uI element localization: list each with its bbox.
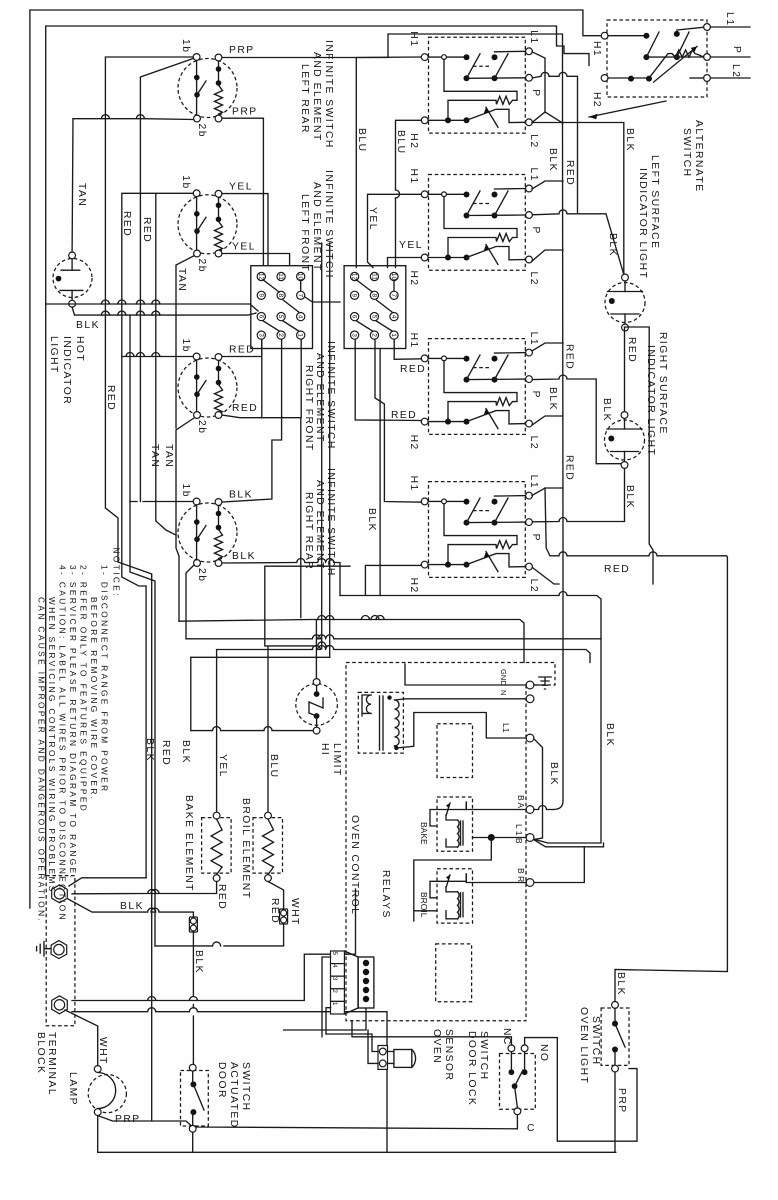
wire BLK H1 box4 from pin2R <box>375 340 421 503</box>
svg-text:LAMP: LAMP <box>67 1072 78 1106</box>
svg-text:1- DISCONNECT RANGE FROM POWER: 1- DISCONNECT RANGE FROM POWER <box>100 565 110 794</box>
svg-text:1: 1 <box>297 333 304 337</box>
svg-text:3- SERVICER PLEASE RETURN DIAG: 3- SERVICER PLEASE RETURN DIAGRAM TO RAN… <box>68 565 78 880</box>
svg-text:RED: RED <box>121 211 132 237</box>
wire BLU tap H1 box1 <box>356 57 421 268</box>
wire bundle y595 <box>340 592 601 844</box>
BA terminal <box>526 806 534 814</box>
svg-text:BLK: BLK <box>547 148 558 172</box>
svg-text:H1: H1 <box>408 333 419 349</box>
svg-text:P: P <box>530 534 541 542</box>
svg-text:BLU: BLU <box>356 128 367 153</box>
svg-text:4- CAUTION: LABEL ALL WIRES PR: 4- CAUTION: LABEL ALL WIRES PRIOR TO DIS… <box>58 565 68 922</box>
right surface indicator light <box>605 420 645 460</box>
top feed wires into oven control <box>186 635 601 639</box>
door lock switch <box>500 1054 536 1110</box>
svg-text:B R: B R <box>516 868 526 882</box>
svg-text:5: 5 <box>277 315 284 319</box>
svg-text:RED: RED <box>564 455 575 481</box>
svg-text:1b: 1b <box>180 484 191 498</box>
svg-text:LIMIT: LIMIT <box>331 743 342 777</box>
svg-text:N: N <box>499 690 508 695</box>
inline connector on broil riser <box>280 909 288 924</box>
wire BLK hot light bottom <box>72 307 256 315</box>
wire RED trunk P box1 <box>532 72 577 214</box>
svg-text:RIGHT FRONT: RIGHT FRONT <box>303 365 314 452</box>
svg-text:BLK: BLK <box>604 723 615 747</box>
wire L1 supply perimeter outer <box>30 10 601 908</box>
svg-text:1: 1 <box>331 1002 338 1006</box>
svg-text:RED: RED <box>160 740 171 766</box>
wire to connector 6L run <box>46 304 258 311</box>
wire bundle y646 BLU broil <box>265 566 350 812</box>
wire between blocks vertical 1 <box>321 243 323 649</box>
svg-text:3: 3 <box>351 333 358 337</box>
wire BLK top right rear <box>222 339 282 502</box>
svg-text:H1: H1 <box>408 169 419 185</box>
svg-text:BLU: BLU <box>395 130 406 155</box>
alternate switch H2 row with resistor <box>608 77 649 79</box>
svg-text:BROIL: BROIL <box>419 892 429 918</box>
wire L2 supply perimeter inner <box>46 26 589 876</box>
svg-text:INFINITE SWITCH: INFINITE SWITCH <box>323 170 334 279</box>
svg-text:10: 10 <box>297 273 304 281</box>
svg-text:WHT: WHT <box>97 1037 108 1065</box>
door actuated switch <box>181 1071 209 1127</box>
svg-text:ALTERNATE: ALTERNATE <box>693 120 704 193</box>
svg-text:L 1 B: L 1 B <box>514 824 524 844</box>
svg-text:INFINITE SWITCH: INFINITE SWITCH <box>325 341 336 450</box>
svg-text:3: 3 <box>331 977 338 981</box>
svg-text:5: 5 <box>331 952 338 956</box>
svg-text:AND ELEMENT: AND ELEMENT <box>311 52 322 142</box>
svg-text:1b: 1b <box>180 339 191 353</box>
wire WHT lamp feed <box>65 1010 98 1066</box>
svg-text:RED: RED <box>564 344 575 370</box>
unused relay spot 2 <box>436 944 472 1002</box>
svg-text:2- REFER ONLY TO FEATURES EQUI: 2- REFER ONLY TO FEATURES EQUIPPED <box>79 565 89 813</box>
LB terminal <box>526 834 534 842</box>
svg-text:P: P <box>731 46 742 54</box>
svg-text:INDICATOR LIGHT: INDICATOR LIGHT <box>645 345 656 456</box>
wire L1 to BLK descent <box>534 739 543 840</box>
svg-text:YEL: YEL <box>399 240 423 251</box>
svg-text:INDICATOR: INDICATOR <box>61 336 72 405</box>
svg-text:RED: RED <box>141 217 152 243</box>
wire bus y730 to hi-limit bottom <box>191 727 317 734</box>
wire YEL H2 box2 <box>388 258 422 268</box>
svg-text:RED: RED <box>564 160 575 186</box>
svg-text:H2: H2 <box>408 578 419 594</box>
svg-text:PRP: PRP <box>229 45 255 56</box>
junction dot LB <box>488 834 495 841</box>
svg-text:4: 4 <box>297 315 304 319</box>
wire RED bake bottom to hex1 <box>72 882 217 894</box>
svg-text:2b: 2b <box>196 568 207 582</box>
wires from 54321 <box>284 957 366 1037</box>
wire 1b right front to x121 <box>122 353 193 357</box>
svg-text:10: 10 <box>390 273 397 281</box>
terminal block stud L1 <box>52 885 68 903</box>
svg-text:TAN: TAN <box>76 183 87 207</box>
svg-text:H1: H1 <box>408 476 419 492</box>
wire 1b left front RED <box>122 193 193 878</box>
BR terminal <box>526 879 534 887</box>
wire hop marks on 2b run <box>101 300 159 304</box>
svg-text:BLK: BLK <box>120 901 144 912</box>
svg-text:RED: RED <box>400 364 426 375</box>
svg-text:BLK: BLK <box>366 508 377 532</box>
wire P box2 to left light <box>532 210 623 275</box>
svg-text:TAN: TAN <box>163 444 174 468</box>
wire RED bottom right front <box>222 415 301 418</box>
wire L2 box1 to left light BLK <box>532 122 563 124</box>
terminal block stud N <box>52 996 68 1014</box>
svg-text:BLK: BLK <box>607 233 618 257</box>
connector block left <box>251 266 313 349</box>
wire RED H2 box3 from pin3R <box>355 340 421 421</box>
svg-text:L1: L1 <box>501 723 511 733</box>
svg-text:LEFT SURFACE: LEFT SURFACE <box>649 155 660 249</box>
wires door lock <box>352 1021 511 1045</box>
surface unit switch box right front <box>429 339 526 435</box>
plug with 5 pins <box>344 951 358 1014</box>
ground symbol <box>37 942 51 956</box>
svg-text:RED: RED <box>232 403 258 414</box>
svg-text:RELAYS: RELAYS <box>380 870 391 919</box>
wire right block bottom descent x380 <box>379 349 381 596</box>
wire 1b left rear diagonal to x140 <box>140 59 193 502</box>
svg-text:BAKE: BAKE <box>419 822 429 845</box>
terminal block dashed box <box>46 876 75 1026</box>
svg-text:RED: RED <box>626 337 637 363</box>
svg-text:H1: H1 <box>408 31 419 47</box>
wire L1 box4 to right side run <box>545 488 727 1002</box>
N terminal <box>526 695 534 703</box>
svg-text:H2: H2 <box>408 133 419 149</box>
wires oven sensor <box>326 1030 378 1063</box>
wire pin1L descent <box>300 340 302 618</box>
svg-text:B A: B A <box>516 795 526 809</box>
oven lamp <box>88 1075 126 1113</box>
svg-text:7: 7 <box>297 293 304 297</box>
svg-text:OVEN CONTROL: OVEN CONTROL <box>349 815 360 915</box>
GND terminal <box>526 681 534 689</box>
svg-text:ACTUATED: ACTUATED <box>228 1062 239 1129</box>
hi limit thermostat <box>296 684 338 726</box>
svg-text:BAKE ELEMENT: BAKE ELEMENT <box>183 795 194 892</box>
svg-text:INFINITE SWITCH: INFINITE SWITCH <box>323 40 334 149</box>
svg-text:1b: 1b <box>180 39 191 53</box>
wire P box4 to right light bottom <box>532 467 624 522</box>
svg-text:BLK: BLK <box>624 128 635 152</box>
svg-text:BLK: BLK <box>601 398 612 422</box>
oven sensor <box>378 1046 388 1070</box>
surface unit switch box left rear <box>429 37 526 133</box>
svg-text:BLK: BLK <box>624 485 635 509</box>
svg-text:RIGHT SURFACE: RIGHT SURFACE <box>657 332 668 435</box>
svg-text:BLK: BLK <box>144 738 155 762</box>
svg-text:BLK: BLK <box>547 387 558 411</box>
svg-text:RED: RED <box>216 884 227 910</box>
infinite switch left front YEL <box>178 195 237 254</box>
svg-text:TAN: TAN <box>176 268 187 292</box>
wire L1 L2 box3 diagonals <box>532 343 563 425</box>
svg-text:P: P <box>530 391 541 399</box>
svg-text:YEL: YEL <box>367 207 378 231</box>
wire H2 box4 to bundle <box>365 565 421 595</box>
wire TAN hot light to 2b run <box>71 119 74 252</box>
wire 2b left front TAN <box>176 256 194 428</box>
svg-text:OVEN: OVEN <box>431 1029 442 1064</box>
wire YEL H1 box2 <box>368 194 422 267</box>
wire connector L pin7 link <box>305 297 340 302</box>
wire RED H1 box3 from pin1R <box>394 340 421 360</box>
inline connector on door feed <box>189 917 197 932</box>
wire 1b left rear to bundle <box>105 57 193 1121</box>
svg-text:PRP: PRP <box>232 107 258 118</box>
svg-text:9: 9 <box>257 293 264 297</box>
svg-text:LEFT FRONT: LEFT FRONT <box>299 194 310 272</box>
wire 1b right rear <box>130 501 193 503</box>
svg-text:RED: RED <box>391 410 417 421</box>
svg-text:WHEN SERVICING CONTROLS WIRING: WHEN SERVICING CONTROLS WIRING PROBLEMS <box>47 597 57 894</box>
alternate switch right stubs <box>710 27 750 78</box>
svg-text:L2: L2 <box>528 436 539 450</box>
svg-text:L1: L1 <box>528 30 539 44</box>
svg-text:SWITCH: SWITCH <box>240 1062 251 1112</box>
svg-text:L2: L2 <box>528 579 539 593</box>
svg-text:11: 11 <box>370 273 377 280</box>
alternate switch box <box>607 20 707 97</box>
svg-text:2: 2 <box>331 989 338 993</box>
svg-text:AND ELEMENT: AND ELEMENT <box>311 182 322 272</box>
svg-text:6: 6 <box>257 315 264 319</box>
svg-text:4: 4 <box>390 315 397 319</box>
wire P box3 to right light <box>532 375 621 464</box>
svg-text:NOTICE:: NOTICE: <box>112 548 122 598</box>
svg-text:C: C <box>527 1123 536 1134</box>
surface unit switch box right rear <box>429 482 526 578</box>
wire bundle y619 hi-limit feed <box>179 620 524 680</box>
wire bundle y657 YEL bake <box>217 646 590 813</box>
wire left light bottom to right run <box>625 327 654 584</box>
wire BLK trunk <box>553 124 563 810</box>
connector 54321 strip <box>331 951 345 964</box>
connector block right <box>344 266 406 349</box>
wire x190 drop to bus <box>190 657 192 730</box>
svg-text:TERMINAL: TERMINAL <box>46 1032 57 1096</box>
svg-text:L2: L2 <box>730 64 741 78</box>
infinite switch right rear BLK <box>178 503 237 562</box>
svg-text:AND ELEMENT: AND ELEMENT <box>314 480 325 570</box>
wire PRP lamp bottom <box>98 1115 518 1129</box>
wire PRP bottom to connector <box>222 118 263 265</box>
wire into terminal block top <box>69 878 146 886</box>
svg-text:BROIL ELEMENT: BROIL ELEMENT <box>240 798 251 900</box>
wire YEL bottom left front to connector <box>222 254 290 266</box>
svg-text:2b: 2b <box>196 259 207 273</box>
svg-text:BLK: BLK <box>548 762 559 786</box>
svg-text:GND: GND <box>499 669 508 686</box>
svg-text:1: 1 <box>390 333 397 337</box>
svg-text:PRP: PRP <box>115 1114 141 1125</box>
svg-text:RIGHT REAR: RIGHT REAR <box>303 492 314 570</box>
oven control board outline <box>346 663 555 1021</box>
wire between blocks vertical 2 <box>329 243 331 657</box>
wire 2b left rear TAN <box>73 115 194 120</box>
svg-text:4: 4 <box>331 964 338 968</box>
wire RED descent from pins to bundle <box>261 340 263 418</box>
annotation arrow to alternate switch <box>589 101 666 117</box>
svg-text:H2: H2 <box>408 271 419 287</box>
svg-text:L1: L1 <box>528 168 539 182</box>
wire hex3 lower to bottom run <box>72 1008 387 1152</box>
svg-text:RED: RED <box>604 564 630 575</box>
oven light switch <box>601 1008 629 1065</box>
svg-text:YEL: YEL <box>217 754 228 778</box>
svg-text:BLK: BLK <box>180 740 191 764</box>
svg-text:BLOCK: BLOCK <box>35 1032 46 1074</box>
svg-text:DOOR LOCK: DOOR LOCK <box>466 1031 477 1106</box>
svg-text:SWITCH: SWITCH <box>681 128 692 178</box>
svg-text:CAN CAUSE IMPROPER AND DANGERO: CAN CAUSE IMPROPER AND DANGEROUS OPERATI… <box>37 597 47 923</box>
svg-text:L1: L1 <box>724 12 735 26</box>
transformer <box>358 692 403 753</box>
svg-text:LIGHT: LIGHT <box>48 336 59 374</box>
svg-text:P: P <box>530 89 541 97</box>
wire PRP oven light bottom <box>614 1072 616 1152</box>
wire L1/L2 box1 stub trunk <box>532 52 563 123</box>
svg-text:3: 3 <box>257 333 264 337</box>
svg-text:L1: L1 <box>528 332 539 346</box>
svg-text:9: 9 <box>351 293 358 297</box>
svg-text:PRP: PRP <box>616 1088 627 1114</box>
wire hex1 diag BLK to door feed <box>68 899 193 1064</box>
wire x130 drop <box>130 315 155 946</box>
svg-text:DOOR: DOOR <box>216 1062 227 1099</box>
svg-text:7: 7 <box>390 293 397 297</box>
svg-text:BEFORE REMOVING WIRE COVER.: BEFORE REMOVING WIRE COVER. <box>89 597 99 801</box>
wire L1 L2 box4 diagonals <box>532 488 563 584</box>
svg-text:5: 5 <box>370 315 377 319</box>
svg-text:2b: 2b <box>196 420 207 434</box>
wire BLK bottom right rear <box>222 559 340 596</box>
wire H1 box1 BLU label done above; H2 box1 BLU2 <box>396 120 422 190</box>
svg-text:LEFT REAR: LEFT REAR <box>299 64 310 134</box>
wire PRP switch output top <box>222 34 563 124</box>
infinite switch right front RED <box>178 358 237 417</box>
svg-text:NO: NO <box>538 1044 549 1062</box>
svg-text:AND ELEMENT: AND ELEMENT <box>314 353 325 443</box>
unused relay spot 1 <box>437 724 473 778</box>
wire x155 vertical <box>156 194 176 535</box>
hot indicator light <box>53 259 92 298</box>
svg-text:WHT: WHT <box>289 898 300 926</box>
wire lamp bottom to bottom run <box>98 1116 616 1153</box>
svg-text:TAN: TAN <box>149 444 160 468</box>
svg-text:8: 8 <box>277 293 284 297</box>
svg-text:YEL: YEL <box>232 242 256 253</box>
svg-text:INDICATOR LIGHT: INDICATOR LIGHT <box>637 168 648 279</box>
wire RED broil bottom riser <box>224 882 284 946</box>
svg-text:YEL: YEL <box>229 181 253 192</box>
BROIL relay <box>437 869 473 923</box>
L1 terminal staircase <box>526 734 534 742</box>
svg-text:BLK: BLK <box>232 551 256 562</box>
svg-text:RED: RED <box>269 898 280 924</box>
svg-text:OVEN LIGHT: OVEN LIGHT <box>578 1007 589 1084</box>
terminal block stud ground <box>51 941 67 959</box>
svg-text:2b: 2b <box>196 124 207 138</box>
wire 2b right rear <box>186 565 194 639</box>
wire WHT riser to hex3 <box>72 889 356 1001</box>
wire L1 L2 box2 diagonals to trunk <box>532 181 563 261</box>
svg-text:2: 2 <box>277 333 284 337</box>
svg-text:HI: HI <box>319 743 330 756</box>
svg-text:BLK: BLK <box>193 950 204 974</box>
infinite switch left rear PRP <box>178 59 237 118</box>
wire RED between lights <box>624 328 626 414</box>
svg-text:2: 2 <box>370 333 377 337</box>
svg-text:BLU: BLU <box>268 754 279 779</box>
svg-text:BLK: BLK <box>76 320 100 331</box>
svg-text:L1: L1 <box>528 475 539 489</box>
svg-text:HOT: HOT <box>74 336 85 362</box>
surface unit switch box left front <box>429 175 526 271</box>
svg-text:L2: L2 <box>528 272 539 286</box>
left surface indicator light <box>605 283 645 323</box>
broil element <box>253 818 283 874</box>
wire RED top right front to connector 3 <box>222 339 262 357</box>
wire YEL top left front to connector <box>222 194 268 265</box>
svg-text:BLK: BLK <box>615 972 626 996</box>
GND wire left <box>405 664 526 685</box>
bake element <box>202 818 232 874</box>
svg-text:6: 6 <box>351 315 358 319</box>
svg-text:P: P <box>530 227 541 235</box>
svg-text:RED: RED <box>105 385 116 411</box>
svg-text:SWITCH: SWITCH <box>478 1031 489 1081</box>
svg-text:H1: H1 <box>591 41 602 57</box>
svg-text:H2: H2 <box>408 435 419 451</box>
svg-text:1b: 1b <box>180 175 191 189</box>
svg-text:H2: H2 <box>591 92 602 108</box>
svg-text:L2: L2 <box>528 134 539 148</box>
svg-text:8: 8 <box>370 293 377 297</box>
svg-text:SWITCH: SWITCH <box>590 1016 601 1066</box>
svg-text:11: 11 <box>277 273 284 280</box>
svg-text:BLK: BLK <box>229 490 253 501</box>
wire 2b right front TAN <box>176 418 194 621</box>
BAKE relay <box>437 797 473 851</box>
